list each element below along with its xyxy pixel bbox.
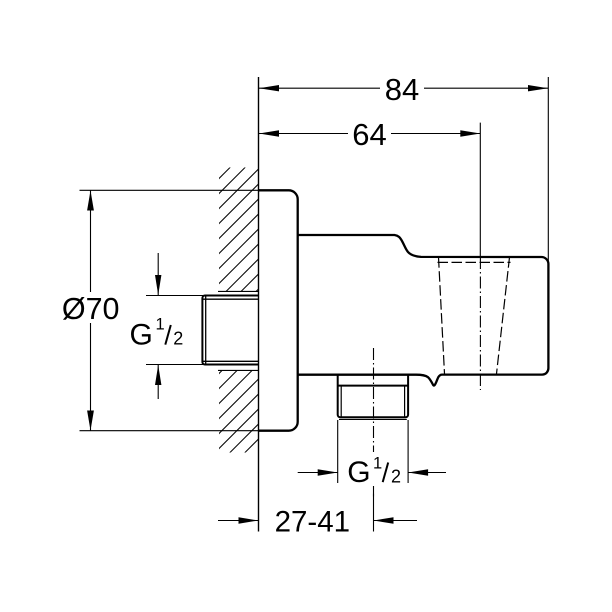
svg-text:2: 2 bbox=[173, 329, 183, 349]
svg-text:G: G bbox=[347, 456, 370, 489]
svg-text:1: 1 bbox=[373, 454, 382, 472]
svg-text:G: G bbox=[130, 319, 153, 352]
svg-text:1: 1 bbox=[156, 316, 165, 334]
svg-text:2: 2 bbox=[391, 467, 401, 487]
svg-text:27-41: 27-41 bbox=[275, 506, 350, 539]
svg-text:64: 64 bbox=[352, 117, 386, 152]
svg-text:Ø70: Ø70 bbox=[62, 292, 120, 326]
svg-text:84: 84 bbox=[385, 72, 419, 107]
